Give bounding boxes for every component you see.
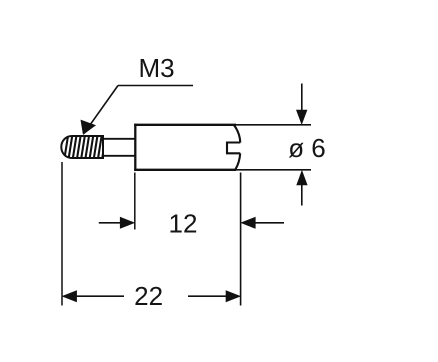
screw slot	[227, 143, 240, 154]
dim12 left extension line	[134, 173, 136, 230]
svg-text:ø 6: ø 6	[288, 133, 326, 163]
domed end upper arc	[234, 125, 241, 143]
leader horizontal line	[118, 85, 193, 87]
dim12 right arrowhead	[240, 217, 255, 229]
neck bottom line	[103, 155, 136, 157]
domed end lower arc	[235, 153, 240, 170]
dim22 right arrowhead	[226, 290, 241, 302]
body top line	[134, 124, 236, 126]
dim12 right arrow line	[255, 222, 284, 224]
body left edge	[134, 124, 136, 171]
dia6 bottom arrow line	[301, 183, 303, 206]
svg-text:22: 22	[134, 281, 163, 311]
neck top line	[103, 138, 136, 140]
leader arrowhead at thread	[81, 120, 97, 135]
dia6 top arrowhead	[296, 110, 307, 125]
thread hatching	[65, 136, 106, 158]
dim22 left extension line	[61, 162, 63, 306]
dim12 left arrowhead	[120, 217, 135, 229]
svg-text:12: 12	[169, 208, 198, 238]
dim12 left arrow line	[99, 222, 121, 224]
dim22 left arrowhead	[62, 290, 77, 302]
leader diagonal line	[84, 86, 118, 134]
dim22 left line segment	[76, 295, 124, 297]
dia6 top arrow line	[301, 84, 303, 113]
body bottom extension line (diameter)	[236, 169, 311, 171]
dia6 bottom arrowhead	[296, 170, 307, 185]
body bottom line	[134, 169, 236, 171]
thread M3 body outline	[61, 136, 103, 158]
dim22 right line segment	[188, 295, 227, 297]
body top extension line (diameter)	[236, 124, 311, 126]
svg-text:M3: M3	[138, 53, 174, 83]
dim12/22 right extension line	[240, 173, 242, 306]
thread right edge	[102, 135, 104, 159]
